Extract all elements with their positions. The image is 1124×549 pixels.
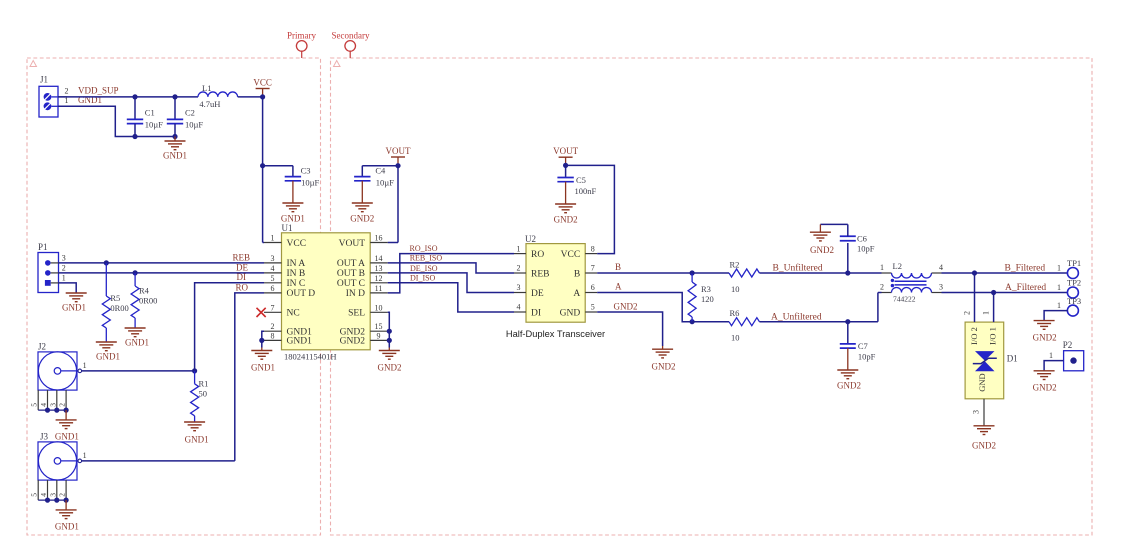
svg-text:Secondary: Secondary <box>332 30 370 40</box>
svg-text:GND1: GND1 <box>62 303 86 313</box>
svg-text:GND2: GND2 <box>614 302 638 312</box>
svg-text:8: 8 <box>271 331 275 340</box>
svg-text:J3: J3 <box>40 432 49 442</box>
wire P2 to ground <box>1044 351 1064 371</box>
svg-text:120: 120 <box>701 294 714 304</box>
svg-text:GND1: GND1 <box>55 522 79 532</box>
svg-text:1: 1 <box>83 361 87 370</box>
svg-text:0R00: 0R00 <box>110 303 128 313</box>
svg-text:2: 2 <box>58 403 67 407</box>
svg-text:4: 4 <box>39 493 48 497</box>
svg-text:D1: D1 <box>1007 354 1018 364</box>
svg-text:VDD_SUP: VDD_SUP <box>78 86 119 96</box>
svg-text:U2: U2 <box>525 234 536 244</box>
svg-text:B_Filtered: B_Filtered <box>1005 264 1046 274</box>
test point TP2 <box>1067 278 1081 299</box>
op-amp U1 isolator 18024115401H <box>264 223 388 362</box>
svg-text:10µF: 10µF <box>185 120 203 130</box>
svg-text:GND2: GND2 <box>378 363 402 373</box>
svg-text:DI: DI <box>531 308 541 318</box>
svg-text:J2: J2 <box>38 342 46 352</box>
ground GND2 at U1 <box>378 348 402 373</box>
svg-text:10pF: 10pF <box>857 244 875 254</box>
ground GND2 below C5 <box>554 182 578 225</box>
connector P2 <box>1063 340 1084 371</box>
net REB_ISO wire <box>388 254 514 273</box>
svg-text:GND1: GND1 <box>96 352 120 362</box>
secondary isolation region border <box>331 58 1093 535</box>
wire VCC to C3 <box>263 166 293 177</box>
svg-text:16: 16 <box>375 234 383 243</box>
ground GND1 label at J2 <box>55 432 79 442</box>
svg-text:R5: R5 <box>110 293 120 303</box>
svg-text:IN D: IN D <box>346 289 365 299</box>
svg-text:4: 4 <box>271 264 275 273</box>
svg-text:OUT A: OUT A <box>337 259 365 269</box>
svg-text:9: 9 <box>377 331 381 340</box>
svg-text:I/O 2: I/O 2 <box>969 327 979 345</box>
svg-text:8: 8 <box>591 244 595 253</box>
svg-text:3: 3 <box>972 410 981 414</box>
svg-text:VCC: VCC <box>287 239 307 249</box>
svg-text:11: 11 <box>375 284 383 293</box>
wire VOUT to U2 pin8 <box>566 165 615 253</box>
svg-text:GND2: GND2 <box>972 441 996 451</box>
svg-text:6: 6 <box>271 284 275 293</box>
wire GND1 J1 to cap rail <box>58 106 178 139</box>
svg-text:4: 4 <box>517 303 521 312</box>
svg-text:5: 5 <box>30 403 39 407</box>
wire TP3 to ground <box>1044 301 1068 321</box>
svg-text:R2: R2 <box>730 259 740 269</box>
svg-text:C3: C3 <box>301 165 311 175</box>
svg-text:2: 2 <box>62 263 66 272</box>
svg-text:GND1: GND1 <box>125 338 149 348</box>
svg-text:OUT D: OUT D <box>287 289 316 299</box>
power port VOUT at C5 <box>553 146 578 168</box>
svg-text:4: 4 <box>939 263 943 272</box>
connector P1 <box>38 242 59 293</box>
resistor R4 <box>131 273 157 328</box>
net B_Filtered wire <box>942 264 1068 276</box>
wire VDD_SUP J1 to L1 <box>58 94 198 99</box>
svg-text:1: 1 <box>1057 301 1061 310</box>
svg-text:DE_ISO: DE_ISO <box>410 264 438 273</box>
svg-text:1: 1 <box>880 263 884 272</box>
svg-text:B: B <box>615 262 621 272</box>
svg-text:P2: P2 <box>1063 340 1073 350</box>
Secondary port symbol <box>332 30 370 58</box>
svg-text:IN C: IN C <box>287 279 306 289</box>
svg-text:C4: C4 <box>375 165 386 175</box>
test point TP1 <box>1067 258 1081 278</box>
svg-text:2: 2 <box>271 322 275 331</box>
ground GND1 below R4 <box>125 328 149 348</box>
connector J3 <box>30 432 82 519</box>
ground GND1 below R1 <box>184 422 209 445</box>
resistor R1 <box>191 371 209 422</box>
svg-text:C1: C1 <box>145 108 155 118</box>
svg-text:GND: GND <box>977 373 987 391</box>
ground GND2 at P2 <box>1033 371 1057 393</box>
wire VCC to U1 pin1 <box>260 97 265 243</box>
resistor R2 <box>692 259 759 294</box>
svg-text:OUT B: OUT B <box>337 269 365 279</box>
svg-text:SEL: SEL <box>348 309 365 319</box>
svg-text:10: 10 <box>375 303 383 312</box>
svg-text:1: 1 <box>982 311 991 315</box>
svg-text:GND1: GND1 <box>251 363 275 373</box>
svg-text:4.7uH: 4.7uH <box>199 99 220 109</box>
svg-text:J1: J1 <box>40 75 48 85</box>
svg-text:1: 1 <box>1057 264 1061 273</box>
svg-text:2: 2 <box>880 283 884 292</box>
svg-text:GND2: GND2 <box>554 215 578 225</box>
ground GND1 label at J3 <box>55 522 79 532</box>
svg-text:12: 12 <box>375 274 383 283</box>
svg-text:4: 4 <box>39 403 48 407</box>
svg-text:10: 10 <box>731 284 740 294</box>
svg-text:TP3: TP3 <box>1067 296 1081 306</box>
svg-text:P1: P1 <box>38 242 48 252</box>
svg-text:7: 7 <box>271 303 275 312</box>
svg-text:VOUT: VOUT <box>553 146 578 156</box>
svg-text:VOUT: VOUT <box>386 146 411 156</box>
wire U2 pin5 to GND2 <box>597 302 662 346</box>
svg-text:1: 1 <box>1057 283 1061 292</box>
svg-text:C6: C6 <box>857 234 867 244</box>
svg-text:DE: DE <box>236 262 248 272</box>
svg-text:GND2: GND2 <box>1033 333 1057 343</box>
svg-text:15: 15 <box>375 322 383 331</box>
net REB wire <box>59 252 265 265</box>
svg-text:DI: DI <box>237 272 247 282</box>
svg-text:10pF: 10pF <box>858 352 876 362</box>
svg-text:0R00: 0R00 <box>139 296 157 306</box>
svg-text:IN B: IN B <box>287 269 306 279</box>
ground GND1 at U1 <box>251 348 275 373</box>
svg-text:A_Filtered: A_Filtered <box>1005 283 1046 293</box>
net A wire <box>597 281 695 324</box>
svg-text:DI_ISO: DI_ISO <box>410 274 436 283</box>
svg-text:14: 14 <box>375 254 383 263</box>
net DE wire <box>59 262 265 275</box>
net A_Filtered wire <box>942 283 1068 295</box>
svg-text:VCC: VCC <box>561 250 581 260</box>
svg-text:R1: R1 <box>199 379 209 389</box>
capacitor C5 <box>557 165 596 196</box>
wire VOUT to C4 and U1 pin16 <box>362 166 398 243</box>
J2 pin1 wire <box>82 361 198 374</box>
svg-text:100nF: 100nF <box>575 186 597 196</box>
svg-text:B_Unfiltered: B_Unfiltered <box>773 263 823 274</box>
svg-text:GND1: GND1 <box>281 214 305 224</box>
ground GND2 below C4 <box>350 181 374 224</box>
svg-text:I/O 1: I/O 1 <box>988 327 998 345</box>
svg-text:10µF: 10µF <box>376 178 394 188</box>
net DI wire <box>195 272 264 371</box>
svg-text:3: 3 <box>271 254 275 263</box>
svg-text:RO: RO <box>235 282 248 292</box>
power port VCC <box>253 77 272 99</box>
svg-text:744222: 744222 <box>893 295 916 304</box>
svg-text:13: 13 <box>375 264 383 273</box>
net DE_ISO wire <box>388 264 514 293</box>
svg-text:REB_ISO: REB_ISO <box>410 254 443 263</box>
svg-text:C5: C5 <box>576 175 586 185</box>
svg-text:DE: DE <box>531 289 544 299</box>
svg-text:Primary: Primary <box>287 30 316 40</box>
svg-text:7: 7 <box>591 264 595 273</box>
net B_Unfiltered wire <box>759 263 881 276</box>
svg-text:RO: RO <box>531 250 544 260</box>
svg-text:50: 50 <box>199 389 208 399</box>
svg-text:GND2: GND2 <box>1033 383 1057 393</box>
svg-text:2: 2 <box>65 87 69 96</box>
svg-text:REB: REB <box>232 252 250 262</box>
svg-text:2: 2 <box>58 493 67 497</box>
svg-text:18024115401H: 18024115401H <box>284 352 337 362</box>
net A_Unfiltered wire <box>759 311 878 324</box>
svg-text:OUT C: OUT C <box>337 279 365 289</box>
svg-text:GND2: GND2 <box>340 337 366 347</box>
svg-text:3: 3 <box>517 283 521 292</box>
svg-text:10µF: 10µF <box>301 178 319 188</box>
ground GND2 at C6 <box>810 224 848 255</box>
inductor L1 <box>198 83 263 109</box>
transistor U2 Half-Duplex Transceiver <box>506 234 605 339</box>
connector J2 <box>30 342 82 429</box>
svg-text:R6: R6 <box>730 308 740 318</box>
svg-text:GND1: GND1 <box>287 337 313 347</box>
wire U1 GND1 pins 2 and 8 <box>259 331 264 347</box>
svg-text:REB: REB <box>531 269 549 279</box>
svg-text:GND: GND <box>560 308 581 318</box>
svg-text:5: 5 <box>591 303 595 312</box>
svg-text:C2: C2 <box>185 108 195 118</box>
svg-text:5: 5 <box>30 493 39 497</box>
capacitor C3 <box>285 165 320 187</box>
svg-text:3: 3 <box>939 283 943 292</box>
net RO_ISO wire <box>388 244 514 293</box>
capacitor C4 <box>354 165 394 187</box>
ground GND1 at P1 <box>62 293 87 313</box>
ground GND2 below D1 <box>972 426 996 451</box>
resistor R3 <box>688 273 714 322</box>
ground GND2 at TP3 <box>1033 321 1057 343</box>
resistor R6 <box>692 308 759 343</box>
svg-text:GND1: GND1 <box>163 151 187 161</box>
svg-text:NC: NC <box>287 309 300 319</box>
test point TP3 <box>1067 296 1081 316</box>
J1 pin labels <box>65 86 119 106</box>
svg-text:R3: R3 <box>701 284 711 294</box>
capacitor C6 <box>840 224 875 273</box>
P1 pin numbers <box>62 253 66 282</box>
svg-text:6: 6 <box>591 283 595 292</box>
svg-text:3: 3 <box>48 403 57 407</box>
ground GND1 below R5 <box>96 342 120 362</box>
svg-text:10µF: 10µF <box>145 120 163 130</box>
svg-text:GND1: GND1 <box>185 435 209 445</box>
svg-text:R4: R4 <box>139 286 150 296</box>
svg-text:U1: U1 <box>282 223 293 233</box>
capacitor C2 <box>167 97 204 137</box>
ground GND1 below C2 <box>163 137 187 161</box>
svg-text:1: 1 <box>83 451 87 460</box>
svg-text:1: 1 <box>1049 351 1053 360</box>
svg-text:A_Unfiltered: A_Unfiltered <box>771 311 822 322</box>
svg-text:VCC: VCC <box>253 77 272 87</box>
svg-text:1: 1 <box>271 234 275 243</box>
capacitor C7 <box>840 322 876 362</box>
svg-text:IN A: IN A <box>287 259 306 269</box>
svg-text:VOUT: VOUT <box>339 239 366 249</box>
svg-text:B: B <box>574 269 580 279</box>
svg-text:1: 1 <box>62 273 66 282</box>
no-connect X on U1 pin 7 <box>257 308 266 317</box>
power port VOUT at C4 <box>386 146 411 168</box>
primary isolation region border <box>27 58 321 535</box>
svg-text:5: 5 <box>271 274 275 283</box>
wire P1 pin1 to ground <box>59 283 77 293</box>
resistor R5 <box>102 263 129 342</box>
svg-text:GND2: GND2 <box>652 362 676 372</box>
Primary port symbol <box>287 30 316 58</box>
svg-text:10: 10 <box>731 333 740 343</box>
net B wire <box>597 262 695 276</box>
svg-text:L2: L2 <box>893 261 902 271</box>
svg-text:GND2: GND2 <box>837 381 861 391</box>
net RO wire <box>235 282 264 461</box>
svg-text:2: 2 <box>517 264 521 273</box>
svg-text:3: 3 <box>48 493 57 497</box>
svg-text:GND1: GND1 <box>55 432 79 442</box>
capacitor C1 <box>127 97 163 137</box>
svg-text:RO_ISO: RO_ISO <box>410 244 438 253</box>
svg-text:TP1: TP1 <box>1067 258 1081 268</box>
ground GND2 below C7 <box>837 348 861 390</box>
svg-text:TP2: TP2 <box>1067 278 1081 288</box>
ground GND2 at U2 pin5 <box>652 346 676 372</box>
J3 pin1 wire <box>82 451 235 461</box>
ground GND1 below C3 <box>281 181 305 224</box>
svg-text:2: 2 <box>963 311 972 315</box>
connector J1 <box>39 75 67 118</box>
svg-text:C7: C7 <box>858 341 868 351</box>
wire U1 SEL GND2 pins 10 15 9 <box>387 312 392 347</box>
net DI_ISO wire <box>388 274 514 312</box>
svg-text:A: A <box>615 281 622 291</box>
svg-text:1: 1 <box>517 244 521 253</box>
svg-text:Half-Duplex Transceiver: Half-Duplex Transceiver <box>506 329 605 339</box>
diode D1 TVS array <box>963 273 1018 426</box>
inductor L2 744222 <box>878 261 943 322</box>
svg-text:3: 3 <box>62 253 66 262</box>
svg-text:A: A <box>573 289 580 299</box>
svg-text:GND2: GND2 <box>810 245 834 255</box>
svg-text:GND2: GND2 <box>350 214 374 224</box>
